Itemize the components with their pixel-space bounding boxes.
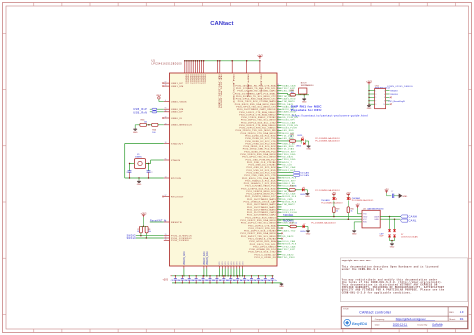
svg-text:SCL0_CAN: SCL0_CAN — [282, 240, 295, 243]
svg-text:Populate for DFU: Populate for DFU — [291, 108, 322, 112]
svg-text:SD_DAT0: SD_DAT0 — [282, 253, 294, 256]
wire R66 to USB0_NEEDCLK pin — [158, 124, 164, 126]
svg-text:18: 18 — [165, 142, 167, 144]
ferrite bead FB2 — [152, 111, 157, 113]
+3V3 for reset pull-ups — [143, 215, 145, 217]
svg-text:EasyEDA: EasyEDA — [352, 322, 368, 326]
svg-text:70: 70 — [165, 234, 167, 236]
wire GND rail — [172, 282, 282, 284]
wire FB2 to USB0_DP — [157, 111, 164, 113]
svg-text:SCK3_FLSH: SCK3_FLSH — [282, 212, 297, 214]
wire VBUS to USB0_VBUS pin — [158, 99, 160, 101]
svg-text:4: 4 — [384, 94, 385, 96]
svg-text:USB0_ID: USB0_ID — [171, 118, 182, 120]
ground for U3 — [352, 230, 356, 233]
svg-text:+3V3: +3V3 — [141, 213, 147, 216]
svg-text:C38: C38 — [226, 280, 229, 282]
svg-text:1: 1 — [375, 90, 376, 92]
svg-text:C2: C2 — [150, 172, 152, 174]
svg-text:VREFN_DAC: VREFN_DAC — [206, 251, 209, 265]
wire crystal right to C2 — [148, 164, 150, 171]
capacitor C30 — [174, 276, 176, 279]
ground for LED1/2 — [308, 141, 310, 145]
svg-text:RESETN: RESETN — [171, 222, 182, 224]
svg-text:1k: 1k — [290, 136, 292, 138]
wire crystal left — [130, 163, 135, 165]
svg-text:C40: C40 — [240, 280, 243, 282]
svg-text:PC-D1N4WLGA-020D1O: PC-D1N4WLGA-020D1O — [315, 140, 340, 143]
wire TxDCAN1 — [277, 216, 362, 218]
svg-text:VDDA_ADC3V3_VREFP: VDDA_ADC3V3_VREFP — [232, 74, 235, 103]
svg-text:SWCLK: SWCLK — [127, 238, 137, 240]
svg-text:1k: 1k — [351, 211, 353, 213]
wire CANH — [380, 216, 400, 218]
svg-text:RXD7_EXP: RXD7_EXP — [282, 170, 296, 172]
svg-text:14: 14 — [165, 177, 167, 179]
svg-text:PC-D1N4WLGA-020D1O: PC-D1N4WLGA-020D1O — [311, 221, 336, 224]
svg-text:+3V3: +3V3 — [257, 54, 263, 57]
wire FB1 to USB0_DM — [157, 108, 164, 110]
svg-text:USB_RxN: USB_RxN — [133, 111, 147, 114]
svg-text:C30: C30 — [171, 280, 174, 282]
svg-text:VDDIO2: VDDIO2 — [197, 74, 199, 84]
ground for crystal caps — [138, 178, 140, 180]
capacitor C34 — [202, 276, 204, 279]
svg-text:GoRoMb: GoRoMb — [432, 322, 443, 326]
svg-text:36: 36 — [165, 110, 167, 112]
svg-text:VDDIO2: VDDIO2 — [189, 74, 191, 84]
svg-text:SDCAN: SDCAN — [300, 172, 309, 175]
svg-text:PIO0_14/FC1_CTS_SDA_SSEL2: PIO0_14/FC1_CTS_SDA_SSEL2 — [239, 111, 276, 114]
svg-text:TIM_MAT2: TIM_MAT2 — [282, 203, 295, 206]
wire RESETN — [150, 221, 164, 223]
svg-text:GND: GND — [133, 132, 138, 134]
svg-text:VCC: VCC — [363, 219, 368, 221]
svg-text:PIO0_16/CAN1_RD_FC4_CTS_SDA: PIO0_16/CAN1_RD_FC4_CTS_SDA — [236, 84, 277, 87]
svg-text:81: 81 — [277, 213, 279, 215]
wire XTALOUT loop — [125, 143, 164, 145]
svg-text:PIO1_16/CTIMER1_MAT3: PIO1_16/CTIMER1_MAT3 — [247, 198, 276, 201]
wire R61 to button — [296, 94, 309, 96]
svg-text:SCL0_CAN: SCL0_CAN — [282, 121, 295, 124]
svg-text:TITLE:: TITLE: — [343, 309, 349, 311]
svg-text:32: 32 — [165, 117, 167, 119]
wire XTALIN — [151, 159, 164, 161]
svg-text:CANtact: CANtact — [210, 21, 233, 27]
svg-text:5: 5 — [375, 97, 376, 99]
svg-text:9: 9 — [375, 104, 376, 106]
svg-text:8: 8 — [384, 101, 385, 103]
capacitor C41 — [251, 276, 253, 279]
svg-text:PIO1_17/CAN1_TD_FC6_RTS_SCL: PIO1_17/CAN1_TD_FC6_RTS_SCL — [236, 87, 276, 90]
wire R56 to LEDs — [296, 140, 302, 142]
svg-text:CANH: CANH — [409, 215, 418, 219]
svg-text:PC-D1N4WLGA-020D1O: PC-D1N4WLGA-020D1O — [321, 202, 343, 205]
svg-text:PIO1_20/CTIMER1_MAT0: PIO1_20/CTIMER1_MAT0 — [247, 208, 276, 211]
svg-text:SDA0_CAN: SDA0_CAN — [282, 84, 296, 87]
svg-text:87: 87 — [165, 195, 167, 197]
svg-text:PC-D1N4WLGA-020D1O: PC-D1N4WLGA-020D1O — [315, 189, 340, 192]
svg-text:Copyright Gore Mose 2021.: Copyright Gore Mose 2021. — [342, 259, 372, 262]
svg-text:PIO0_4/CAN0_RD_FC4: PIO0_4/CAN0_RD_FC4 — [249, 248, 276, 251]
svg-text:SD_DAT1: SD_DAT1 — [282, 156, 294, 159]
svg-text:CAN1_RXD: CAN1_RXD — [282, 98, 296, 101]
svg-text:PIO1_8/FC0_CTS_SDA_SSEL: PIO1_8/FC0_CTS_SDA_SSEL — [242, 177, 276, 180]
wire RxDCAN1 — [277, 218, 362, 220]
svg-text:C33: C33 — [192, 280, 195, 282]
+5V for U3 — [357, 206, 359, 208]
LED THCAN2 — [347, 198, 350, 200]
svg-text:10: 10 — [383, 104, 385, 106]
svg-text:CANL: CANL — [374, 218, 379, 221]
svg-text:95: 95 — [165, 108, 167, 110]
svg-text:C35: C35 — [205, 280, 208, 282]
svg-text:PIO1_29/FC7_RXD_SDA_MOSI: PIO1_29/FC7_RXD_SDA_MOSI — [240, 232, 276, 235]
svg-text:GND: GND — [305, 196, 310, 198]
svg-text:TDI_JTAG: TDI_JTAG — [282, 148, 294, 151]
svg-text:C34: C34 — [198, 280, 201, 282]
svg-text:SD_DAT3: SD_DAT3 — [282, 235, 294, 238]
svg-text:USB0_NEEDCLK: USB0_NEEDCLK — [171, 125, 192, 127]
wire R65-R66 junction — [146, 124, 151, 126]
svg-text:PIO0_20/FC3_CTS_SDA_SSEL0: PIO0_20/FC3_CTS_SDA_SSEL0 — [239, 124, 276, 127]
LED LED4 — [303, 225, 305, 228]
U1 top power pins and VDD rail wire — [185, 60, 260, 62]
wire U3 GND pin — [354, 221, 362, 223]
svg-text:C37: C37 — [219, 280, 222, 282]
svg-text:PIO2_0/FC0_RXD_SDA: PIO2_0/FC0_RXD_SDA — [249, 240, 276, 243]
svg-text:USB0_DP: USB0_DP — [171, 112, 183, 114]
svg-text:15: 15 — [165, 85, 167, 87]
svg-text:+5V: +5V — [332, 192, 337, 195]
svg-text:XTALOUT: XTALOUT — [171, 142, 184, 145]
svg-text:U1: U1 — [152, 59, 156, 63]
capacitor C33 — [195, 276, 197, 279]
ground for BOOT button — [303, 95, 305, 98]
svg-text:GND: GND — [352, 233, 357, 235]
resistor R66 100 — [152, 123, 158, 126]
capacitor C37 — [223, 276, 225, 279]
svg-text:+5V: +5V — [384, 189, 389, 192]
svg-text:PIO0_3/CAN0_TD_SCL_MISO_CT2: PIO0_3/CAN0_TD_SCL_MISO_CT2 — [236, 95, 276, 98]
svg-text:VBUS: VBUS — [156, 95, 162, 97]
wires pull-ups to SWD lines — [140, 233, 142, 236]
capacitor C43 — [264, 276, 266, 279]
svg-text:PIO1_19/CTIMER1_MAT1: PIO1_19/CTIMER1_MAT1 — [247, 206, 276, 209]
wire pull-up tops — [141, 225, 146, 227]
capacitor C44 — [271, 276, 273, 279]
svg-text:USB1_DM: USB1_DM — [171, 86, 184, 88]
capacitor C31 — [181, 276, 183, 279]
svg-text:LED1: LED1 — [297, 135, 303, 137]
svg-text:CTS2_CAN: CTS2_CAN — [282, 193, 295, 196]
svg-text:GND: GND — [302, 102, 307, 104]
svg-text:PIO0_13/SWO: PIO0_13/SWO — [171, 240, 189, 242]
svg-text:C36: C36 — [212, 280, 215, 282]
svg-text:REV:: REV: — [449, 312, 454, 314]
svg-text:VREFP_DAC: VREFP_DAC — [203, 251, 206, 265]
svg-text:C43: C43 — [261, 280, 264, 282]
svg-text:6: 6 — [384, 97, 385, 99]
svg-text:CTS2_CAN: CTS2_CAN — [282, 245, 295, 248]
power flag VBUS — [158, 97, 160, 99]
ground at decoupling rail — [280, 283, 283, 285]
wire THCAN2 to CAN line — [347, 213, 349, 220]
capacitor C36 — [216, 276, 218, 279]
IC U1 LPC54616J512BD100 body — [170, 73, 278, 266]
svg-text:PIO0_15/FC6_CTS_SDA_SSEL2: PIO0_15/FC6_CTS_SDA_SSEL2 — [239, 113, 276, 116]
wire R65 left to GND — [136, 124, 140, 126]
svg-text:GND: GND — [363, 216, 368, 218]
svg-text:RTCXIN: RTCXIN — [171, 178, 181, 180]
svg-text:https://github.com/gjover: https://github.com/gjover — [396, 317, 426, 321]
wire SWDIO — [136, 237, 164, 239]
LED LED3 — [302, 188, 304, 191]
svg-text:Sheet:: Sheet: — [449, 318, 456, 321]
svg-text:GND: GND — [279, 286, 284, 288]
svg-text:3: 3 — [375, 94, 376, 96]
copyright note box — [340, 258, 467, 302]
TVS diode array D7 CDSOT23-T24CAN — [389, 217, 391, 230]
svg-text:PIO_ResetKeyN: PIO_ResetKeyN — [389, 100, 405, 103]
svg-text:VBAT_DCDC_PMU_AON3V3: VBAT_DCDC_PMU_AON3V3 — [220, 74, 223, 109]
svg-text:+3V3: +3V3 — [366, 80, 372, 83]
U1 bottom pins dropping to decoupling rail — [183, 266, 185, 269]
wire CANL — [380, 218, 400, 220]
net port SCCAN — [293, 174, 299, 176]
svg-text:76: 76 — [165, 239, 167, 241]
+5V for THCAN2 — [347, 194, 349, 196]
svg-text:https://cantact.io/cantact-pro: https://cantact.io/cantact-pro/users-gui… — [292, 114, 368, 118]
capacitor C32 — [188, 276, 190, 279]
LED THCAN1 — [332, 198, 335, 200]
wire R58 to LED3 — [295, 189, 302, 191]
svg-text:CAN1_TXD: CAN1_TXD — [282, 230, 295, 233]
svg-text:C42: C42 — [254, 280, 257, 282]
svg-text:+5V: +5V — [355, 204, 360, 207]
ground for C7 — [397, 194, 401, 198]
svg-text:GND: GND — [306, 233, 311, 235]
svg-text:+3V3: +3V3 — [163, 280, 169, 282]
svg-text:LED2: LED2 — [296, 146, 302, 148]
svg-text:Company:: Company: — [375, 319, 385, 321]
svg-text:1k: 1k — [336, 211, 338, 213]
title block — [341, 307, 467, 329]
svg-text:PIO0_23/FC0_CTS_SDA_MOSI: PIO0_23/FC0_CTS_SDA_MOSI — [241, 132, 276, 135]
svg-text:C41: C41 — [247, 280, 250, 282]
ground for LED3 — [304, 189, 307, 191]
net port CANL — [401, 219, 408, 222]
+3V3 for CN1 — [368, 83, 370, 85]
wire SWCLK — [136, 235, 164, 237]
svg-text:CANtact controller: CANtact controller — [359, 310, 392, 314]
svg-text:2: 2 — [384, 90, 385, 92]
capacitor C39 — [237, 276, 239, 279]
ground for CN1 — [367, 104, 371, 107]
svg-text:under the CERN-OHL-S-2.0.: under the CERN-OHL-S-2.0. — [342, 268, 384, 271]
wire crystal bottom to RTCXIN — [125, 177, 164, 179]
svg-text:PIO0_7/FC3_SCK_CT32B0_MAT0: PIO0_7/FC3_SCK_CT32B0_MAT0 — [238, 100, 277, 103]
svg-text:VREFN_ADC: VREFN_ADC — [183, 251, 186, 265]
svg-text:95: 95 — [165, 159, 167, 161]
svg-text:CDSOT23-T24CAN: CDSOT23-T24CAN — [401, 236, 418, 239]
svg-text:C39: C39 — [233, 280, 236, 282]
svg-text:PIO1_24/FC2_RXD_SDA_MOSI: PIO1_24/FC2_RXD_SDA_MOSI — [240, 219, 276, 222]
svg-text:GND: GND — [367, 108, 372, 110]
resistor R8 10k — [145, 226, 148, 233]
svg-text:VDDIO3: VDDIO3 — [199, 74, 201, 84]
svg-text:VDDIO0: VDDIO0 — [193, 74, 195, 84]
ground for R65 — [134, 125, 136, 128]
svg-text:GND: GND — [390, 246, 395, 248]
svg-text:ADC0_7: ADC0_7 — [282, 161, 292, 164]
svg-text:Drawn By:: Drawn By: — [418, 323, 428, 326]
net port CANH — [401, 215, 408, 218]
svg-text:PIO1_6_U2/SD_D3: PIO1_6_U2/SD_D3 — [254, 257, 276, 259]
svg-text:1.9: 1.9 — [460, 310, 464, 314]
svg-text:SKRPABE010: SKRPABE010 — [301, 84, 315, 87]
svg-text:USB1_DP: USB1_DP — [171, 83, 183, 85]
+5V for THCAN1 — [333, 194, 335, 196]
ground for LED4 — [305, 226, 308, 228]
wire THCAN1 to CAN line — [333, 213, 335, 217]
svg-text:CERN-OHL-S-2.0 for applicable: CERN-OHL-S-2.0 for applicable conditions… — [342, 291, 412, 294]
svg-text:3/4: 3/4 — [460, 317, 464, 321]
svg-text:10k: 10k — [148, 231, 151, 233]
svg-text:LPC54616J512BD100: LPC54616J512BD100 — [152, 64, 183, 66]
+3V3 power flag at decoupling rail — [171, 275, 173, 277]
svg-text:CANH: CANH — [374, 215, 380, 218]
svg-text:CTS2_CAN: CTS2_CAN — [282, 166, 295, 169]
svg-text:TDO_SWO: TDO_SWO — [282, 257, 295, 259]
ferrite bead FB1 — [152, 108, 157, 110]
svg-text:PIO0_10/CTIMER2_CAP2_SWCLK: PIO0_10/CTIMER2_CAP2_SWCLK — [237, 108, 276, 111]
svg-text:PC-D1N4WLGA-020D1O: PC-D1N4WLGA-020D1O — [315, 137, 340, 140]
svg-text:1k: 1k — [295, 185, 297, 187]
ground for D7 — [391, 241, 393, 243]
net port SDCAN — [293, 172, 299, 174]
wire R57 to LED4 — [296, 226, 302, 228]
svg-text:PIO0_1/CAN0_RD_CT32B0_CAP1: PIO0_1/CAN0_RD_CT32B0_CAP1 — [237, 90, 276, 93]
svg-text:XTALIN: XTALIN — [171, 159, 181, 162]
svg-text:PIO0_2/CTIMER0_CAP1_FC3_SSEL: PIO0_2/CTIMER0_CAP1_FC3_SSEL — [235, 92, 277, 95]
capacitor C38 — [230, 276, 232, 279]
resistor R60 1k — [347, 200, 349, 206]
svg-text:VDDIO1: VDDIO1 — [204, 74, 206, 84]
svg-text:SCCAN: SCCAN — [300, 174, 309, 177]
svg-text:PIO0_31/FC0_RXD_SDA_MOSI: PIO0_31/FC0_RXD_SDA_MOSI — [240, 153, 276, 156]
+5V for C7 — [386, 191, 388, 193]
+3V3 power flag for VDD rail — [259, 57, 261, 59]
svg-text:4: 4 — [165, 100, 166, 102]
capacitor C35 — [209, 276, 211, 279]
svg-text:VDDIO1: VDDIO1 — [187, 74, 189, 84]
wires LED pair loop — [300, 140, 302, 144]
svg-text:CONN_02X05_DEBUG: CONN_02X05_DEBUG — [387, 86, 413, 88]
svg-text:PIO1_18/CTIMER1_MAT2: PIO1_18/CTIMER1_MAT2 — [247, 203, 276, 206]
svg-text:GND: GND — [137, 184, 142, 186]
svg-text:C44: C44 — [268, 280, 271, 282]
svg-text:VDDIO3: VDDIO3 — [191, 74, 193, 84]
svg-text:TIM_MAT0: TIM_MAT0 — [282, 100, 295, 103]
svg-text:PIO1_17/MCLK_UTICK_CAP: PIO1_17/MCLK_UTICK_CAP — [244, 201, 277, 204]
wire CN1 left rail — [368, 85, 370, 105]
svg-text:USB0_VBUS: USB0_VBUS — [171, 101, 187, 103]
svg-text:1k: 1k — [295, 222, 297, 224]
svg-text:+5V: +5V — [346, 192, 351, 195]
svg-text:SWDIO: SWDIO — [390, 90, 398, 92]
svg-text:TXD7_EXP: TXD7_EXP — [282, 249, 295, 251]
svg-text:CANL: CANL — [409, 219, 417, 223]
svg-text:7: 7 — [375, 101, 376, 103]
svg-text:GND: GND — [306, 149, 311, 151]
svg-text:PIO1_26/FC2_CTS_SDA: PIO1_26/FC2_CTS_SDA — [248, 224, 276, 227]
svg-text:Date:: Date: — [375, 323, 381, 326]
svg-text:C31: C31 — [178, 280, 181, 282]
svg-text:VDDIO0: VDDIO0 — [185, 74, 187, 84]
capacitor C42 — [257, 276, 259, 279]
svg-text:82: 82 — [165, 82, 167, 84]
net label SWO at CN1 — [390, 97, 392, 99]
U1 left side pins — [164, 82, 170, 84]
svg-text:2020-12-11: 2020-12-11 — [393, 322, 408, 326]
svg-text:C7: C7 — [391, 191, 393, 193]
svg-text:12: 12 — [165, 237, 167, 239]
svg-text:VDDIO1: VDDIO1 — [195, 74, 197, 84]
svg-text:PIO0_8/FC3_RXD_SDA_MOSI_SWO: PIO0_8/FC3_RXD_SDA_MOSI_SWO — [235, 103, 276, 106]
svg-text:PIO1_9/ADC0_6_FC1_SCK: PIO1_9/ADC0_6_FC1_SCK — [245, 179, 276, 182]
svg-text:VDDIO0: VDDIO0 — [201, 74, 203, 84]
svg-text:PIO1_21/CTIMER1_CAP3: PIO1_21/CTIMER1_CAP3 — [247, 211, 277, 214]
svg-text:RTCXOUT: RTCXOUT — [171, 196, 184, 198]
svg-text:TxDCAN1: TxDCAN1 — [283, 214, 294, 217]
EasyEDA logo — [344, 319, 351, 326]
svg-text:PC-D1N4WLGA-020D1O: PC-D1N4WLGA-020D1O — [352, 199, 374, 202]
svg-text:29: 29 — [165, 123, 167, 125]
svg-text:SWCLK: SWCLK — [390, 94, 398, 96]
svg-text:PIO1_22/CTIMER1_CAP2: PIO1_22/CTIMER1_CAP2 — [247, 214, 277, 217]
svg-text:10n: 10n — [274, 280, 277, 282]
svg-text:PIO0_5/FC4_RXD_SDA_MOSI_CT1: PIO0_5/FC4_RXD_SDA_MOSI_CT1 — [236, 98, 277, 101]
svg-text:PIO1_10/ADC0_7_FC1_RXD: PIO1_10/ADC0_7_FC1_RXD — [244, 182, 276, 185]
capacitor C40 — [244, 276, 246, 279]
svg-text:RXD: RXD — [363, 222, 368, 224]
svg-text:TXD: TXD — [363, 214, 367, 216]
wire VDD rail — [172, 275, 274, 277]
resistor R59 1k — [333, 200, 335, 206]
svg-text:C32: C32 — [185, 280, 188, 282]
svg-text:GND: GND — [402, 196, 407, 198]
